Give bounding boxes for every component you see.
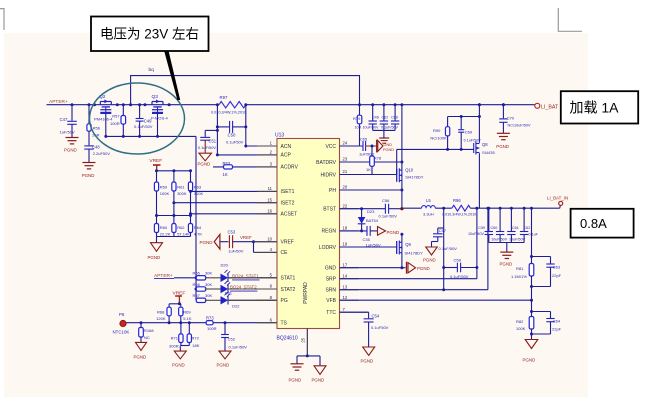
svg-text:1uF/50V: 1uF/50V — [228, 249, 243, 254]
svg-text:57.14K: 57.14K — [177, 231, 190, 236]
svg-text:12: 12 — [343, 295, 348, 300]
svg-text:P6: P6 — [119, 312, 125, 317]
svg-text:3.3uH: 3.3uH — [423, 211, 434, 216]
svg-text:LI_BAT_IN: LI_BAT_IN — [547, 195, 568, 200]
svg-text:PGND: PGND — [387, 230, 400, 235]
svg-text:Q8: Q8 — [482, 142, 488, 147]
svg-text:D20: D20 — [221, 262, 229, 267]
svg-text:18: 18 — [343, 226, 348, 231]
svg-text:C52: C52 — [228, 337, 236, 342]
svg-text:0.010,3/4W,1%,2010: 0.010,3/4W,1%,2010 — [442, 213, 476, 217]
svg-text:C54: C54 — [372, 314, 380, 319]
svg-text:C59: C59 — [478, 226, 485, 230]
svg-text:R71: R71 — [171, 335, 179, 340]
svg-text:22pF: 22pF — [552, 326, 562, 331]
svg-text:0.1uF/50V: 0.1uF/50V — [198, 145, 216, 150]
svg-text:22.2K: 22.2K — [160, 231, 171, 236]
svg-text:1K: 1K — [223, 172, 228, 177]
svg-text:PGND: PGND — [198, 162, 211, 167]
svg-text:STAT2: STAT2 — [281, 287, 296, 293]
svg-text:ACDRV: ACDRV — [281, 165, 299, 171]
svg-text:0.1uF/50V: 0.1uF/50V — [464, 139, 482, 143]
svg-text:R62: R62 — [177, 225, 185, 230]
svg-text:REGN: REGN — [322, 229, 337, 235]
svg-text:10uF/50V: 10uF/50V — [468, 232, 485, 236]
svg-text:D23: D23 — [367, 209, 375, 214]
svg-text:14: 14 — [343, 273, 348, 278]
svg-text:CE: CE — [281, 250, 289, 256]
svg-text:D21: D21 — [225, 291, 233, 296]
svg-text:BQ24610: BQ24610 — [277, 335, 298, 341]
svg-text:LODRV: LODRV — [319, 245, 337, 251]
svg-text:BAT54: BAT54 — [366, 218, 379, 223]
svg-text:R56: R56 — [93, 126, 101, 131]
svg-text:R57: R57 — [112, 114, 120, 119]
svg-text:R72: R72 — [192, 335, 200, 340]
svg-text:BTST: BTST — [323, 207, 336, 213]
svg-text:Q3: Q3 — [152, 94, 159, 100]
svg-text:SI4435: SI4435 — [482, 150, 495, 155]
svg-text:C46: C46 — [372, 115, 379, 119]
svg-text:SI4178DY: SI4178DY — [405, 250, 424, 255]
svg-text:U13: U13 — [275, 133, 284, 139]
svg-text:C61: C61 — [512, 226, 519, 230]
svg-text:C58: C58 — [454, 257, 462, 262]
svg-text:R82: R82 — [516, 319, 524, 324]
svg-text:C56: C56 — [382, 198, 390, 203]
svg-text:C64: C64 — [553, 318, 561, 323]
svg-text:C69: C69 — [465, 130, 473, 135]
svg-text:C53: C53 — [228, 230, 236, 235]
svg-text:PGND: PGND — [423, 258, 436, 263]
svg-text:C51: C51 — [209, 138, 217, 143]
svg-text:0.1uF/50V: 0.1uF/50V — [229, 344, 248, 349]
svg-text:PGND: PGND — [64, 147, 77, 152]
svg-text:R81: R81 — [516, 266, 524, 271]
svg-text:BATDRV: BATDRV — [316, 160, 336, 166]
svg-text:Q9: Q9 — [405, 242, 411, 247]
svg-text:C65: C65 — [360, 136, 368, 141]
svg-text:PWRPAD: PWRPAD — [303, 282, 309, 304]
svg-text:0.1uF50V: 0.1uF50V — [371, 325, 389, 330]
svg-text:STAT1: STAT1 — [281, 276, 296, 282]
svg-text:TS: TS — [281, 321, 288, 327]
svg-text:R65: R65 — [193, 271, 201, 276]
svg-text:R68: R68 — [157, 309, 165, 314]
svg-text:100K: 100K — [160, 191, 170, 196]
svg-text:BQ24_STAT1: BQ24_STAT1 — [232, 273, 259, 278]
svg-text:C47: C47 — [60, 117, 68, 122]
svg-text:C62: C62 — [382, 115, 389, 119]
svg-text:0.1uF/50V: 0.1uF/50V — [381, 126, 399, 130]
svg-text:23: 23 — [343, 157, 348, 162]
svg-text:PGND: PGND — [496, 144, 509, 149]
svg-text:VREF: VREF — [240, 235, 252, 240]
svg-text:PGND: PGND — [217, 362, 230, 367]
svg-text:R64: R64 — [194, 225, 202, 230]
svg-text:1K: 1K — [366, 167, 371, 172]
svg-text:R63: R63 — [194, 185, 202, 190]
svg-text:R73: R73 — [206, 315, 214, 320]
svg-text:0.1uF/50V: 0.1uF/50V — [450, 274, 469, 279]
svg-text:PGND: PGND — [82, 173, 95, 178]
svg-text:APTER+: APTER+ — [49, 99, 68, 105]
svg-text:21: 21 — [343, 169, 348, 174]
svg-text:BQ24_STAT2: BQ24_STAT2 — [230, 285, 257, 290]
svg-text:25: 25 — [301, 337, 306, 342]
svg-text:PGND: PGND — [312, 377, 325, 382]
svg-text:R168: R168 — [144, 328, 154, 333]
svg-text:10uF/50V: 10uF/50V — [509, 238, 526, 242]
svg-text:0.1uF/50V: 0.1uF/50V — [134, 124, 153, 129]
svg-text:5.1K: 5.1K — [183, 316, 192, 321]
svg-text:300R: 300R — [169, 344, 179, 349]
svg-text:C48: C48 — [92, 145, 100, 150]
svg-text:VREF: VREF — [149, 158, 162, 164]
svg-text:ACN: ACN — [281, 144, 292, 150]
svg-text:TTC: TTC — [326, 310, 336, 316]
svg-text:R59: R59 — [160, 185, 168, 190]
svg-text:R96: R96 — [453, 198, 461, 203]
svg-text:100R: 100R — [110, 121, 120, 126]
svg-text:PH: PH — [329, 188, 336, 194]
svg-text:C60: C60 — [491, 226, 498, 230]
svg-text:10R: 10R — [355, 126, 362, 130]
svg-text:HIDRV: HIDRV — [321, 172, 337, 178]
svg-text:VFB: VFB — [326, 298, 336, 304]
svg-text:R61: R61 — [177, 185, 185, 190]
svg-text:C50: C50 — [228, 133, 236, 138]
svg-text:10uF/50V: 10uF/50V — [363, 126, 380, 130]
svg-text:R60: R60 — [160, 225, 168, 230]
svg-text:R53: R53 — [223, 161, 231, 166]
svg-text:10: 10 — [267, 236, 272, 241]
svg-text:30K: 30K — [205, 271, 212, 276]
svg-text:C70: C70 — [507, 116, 515, 121]
svg-text:17: 17 — [343, 262, 348, 267]
svg-text:NTC10K: NTC10K — [113, 330, 130, 335]
svg-text:300K: 300K — [177, 191, 187, 196]
svg-text:16: 16 — [267, 209, 272, 214]
svg-text:120K: 120K — [156, 316, 166, 321]
svg-text:0.1uF: 0.1uF — [529, 232, 539, 236]
svg-text:10uF/50V: 10uF/50V — [491, 238, 508, 242]
svg-text:D22: D22 — [232, 303, 240, 308]
svg-text:R78: R78 — [374, 156, 382, 161]
svg-text:PGND: PGND — [200, 240, 214, 245]
svg-text:R90: R90 — [433, 128, 441, 133]
svg-text:VREF: VREF — [281, 240, 294, 246]
svg-text:2.2uF50V: 2.2uF50V — [93, 151, 111, 156]
svg-text:SRN: SRN — [325, 288, 336, 294]
svg-text:PG: PG — [281, 298, 288, 304]
svg-text:ACSET: ACSET — [281, 212, 298, 218]
svg-text:22pF: 22pF — [552, 273, 562, 278]
svg-text:R69: R69 — [183, 309, 191, 314]
svg-text:C57: C57 — [439, 228, 447, 233]
svg-text:P-MOS-4: P-MOS-4 — [151, 116, 168, 121]
svg-text:C68: C68 — [391, 115, 398, 119]
svg-text:PGND: PGND — [134, 355, 147, 360]
svg-text:NC/10uF/50V: NC/10uF/50V — [508, 124, 531, 128]
svg-text:PGND: PGND — [148, 255, 161, 260]
svg-text:19: 19 — [343, 242, 348, 247]
svg-text:NC/100K: NC/100K — [430, 135, 447, 140]
svg-text:30K: 30K — [205, 282, 212, 287]
svg-text:SRP: SRP — [326, 277, 337, 283]
svg-text:30K: 30K — [205, 293, 212, 298]
svg-text:L5: L5 — [426, 198, 431, 203]
svg-text:R79: R79 — [353, 116, 361, 121]
svg-text:ACP: ACP — [281, 153, 292, 159]
svg-text:0.1uF/50V: 0.1uF/50V — [439, 246, 458, 251]
svg-text:电压为 23V 左右: 电压为 23V 左右 — [100, 27, 199, 42]
svg-text:20: 20 — [343, 185, 348, 190]
svg-text:1.1M/1%: 1.1M/1% — [511, 274, 527, 279]
svg-text:4.7K: 4.7K — [194, 231, 203, 236]
svg-text:0.1uF/50V: 0.1uF/50V — [379, 214, 398, 219]
svg-text:PGND: PGND — [500, 262, 513, 267]
svg-text:GND: GND — [325, 266, 337, 272]
svg-text:15: 15 — [267, 197, 272, 202]
svg-text:C62: C62 — [524, 226, 531, 230]
svg-text:100K: 100K — [516, 326, 526, 331]
svg-text:R67: R67 — [193, 293, 201, 298]
svg-text:0.010,3/4W,1%,2010: 0.010,3/4W,1%,2010 — [211, 111, 246, 115]
svg-text:GND: GND — [384, 143, 393, 147]
svg-text:R66: R66 — [193, 282, 201, 287]
svg-text:SI4178DY: SI4178DY — [405, 174, 424, 179]
svg-text:11: 11 — [268, 186, 273, 191]
svg-text:VCC: VCC — [325, 144, 336, 150]
svg-text:22: 22 — [343, 203, 348, 208]
svg-text:加载 1A: 加载 1A — [570, 100, 620, 116]
svg-text:100R: 100R — [207, 326, 217, 331]
svg-text:24: 24 — [343, 141, 348, 146]
svg-text:C35: C35 — [363, 237, 371, 242]
svg-text:0.8A: 0.8A — [580, 216, 607, 231]
svg-text:NC: NC — [144, 335, 150, 340]
svg-text:PGND: PGND — [172, 362, 185, 367]
svg-text:13: 13 — [343, 284, 348, 289]
svg-text:ISET1: ISET1 — [281, 189, 295, 195]
svg-text:Q10: Q10 — [405, 167, 414, 172]
svg-text:bq: bq — [149, 67, 155, 73]
svg-text:PGND: PGND — [361, 359, 374, 364]
svg-text:PGND: PGND — [289, 377, 302, 382]
svg-text:ISET2: ISET2 — [281, 201, 295, 207]
svg-text:PGND: PGND — [417, 266, 430, 271]
svg-text:PGND: PGND — [383, 148, 394, 152]
svg-text:1uF/50V: 1uF/50V — [60, 130, 75, 135]
svg-text:18K: 18K — [192, 343, 199, 348]
svg-text:0.1uF50V: 0.1uF50V — [226, 139, 244, 144]
svg-text:R97: R97 — [220, 95, 228, 100]
svg-text:PGND: PGND — [523, 357, 536, 362]
svg-text:C63: C63 — [553, 264, 561, 269]
